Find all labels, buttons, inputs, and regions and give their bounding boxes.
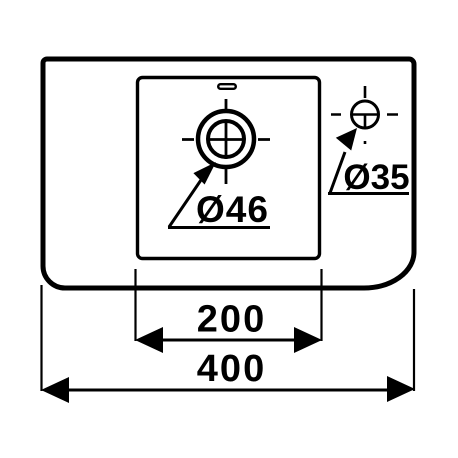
extension line left 200 — [134, 269, 136, 341]
dimension arrow 200 left — [135, 327, 163, 353]
washbasin outer outline — [43, 59, 414, 288]
extension line right 200 — [320, 269, 322, 341]
svg-text:Ø35: Ø35 — [343, 158, 409, 197]
dimension arrow 400 left — [41, 377, 69, 403]
svg-text:400: 400 — [197, 348, 266, 390]
extension line left 400 — [40, 285, 42, 391]
dimension arrow 200 right — [294, 327, 322, 353]
bowl inner rectangle — [138, 78, 320, 259]
svg-text:Ø46: Ø46 — [196, 189, 269, 230]
leader arrow Ø35 — [336, 128, 357, 151]
leader line Ø35 — [328, 152, 409, 194]
leader line Ø46 — [168, 180, 270, 228]
small hole centerlines — [331, 86, 398, 144]
dimension line 400 — [55, 389, 400, 392]
tap hole centerlines — [182, 99, 270, 184]
tap hole inner circle — [208, 121, 244, 157]
leader arrow Ø46 — [193, 162, 216, 185]
tap hole outer circle — [198, 111, 254, 167]
dimension line 200 — [148, 339, 310, 342]
overflow slot — [218, 84, 236, 89]
extension line right 400 — [413, 289, 415, 391]
small hole circle — [352, 101, 379, 128]
dimension arrow 400 right — [387, 376, 415, 402]
svg-text:200: 200 — [197, 299, 266, 341]
